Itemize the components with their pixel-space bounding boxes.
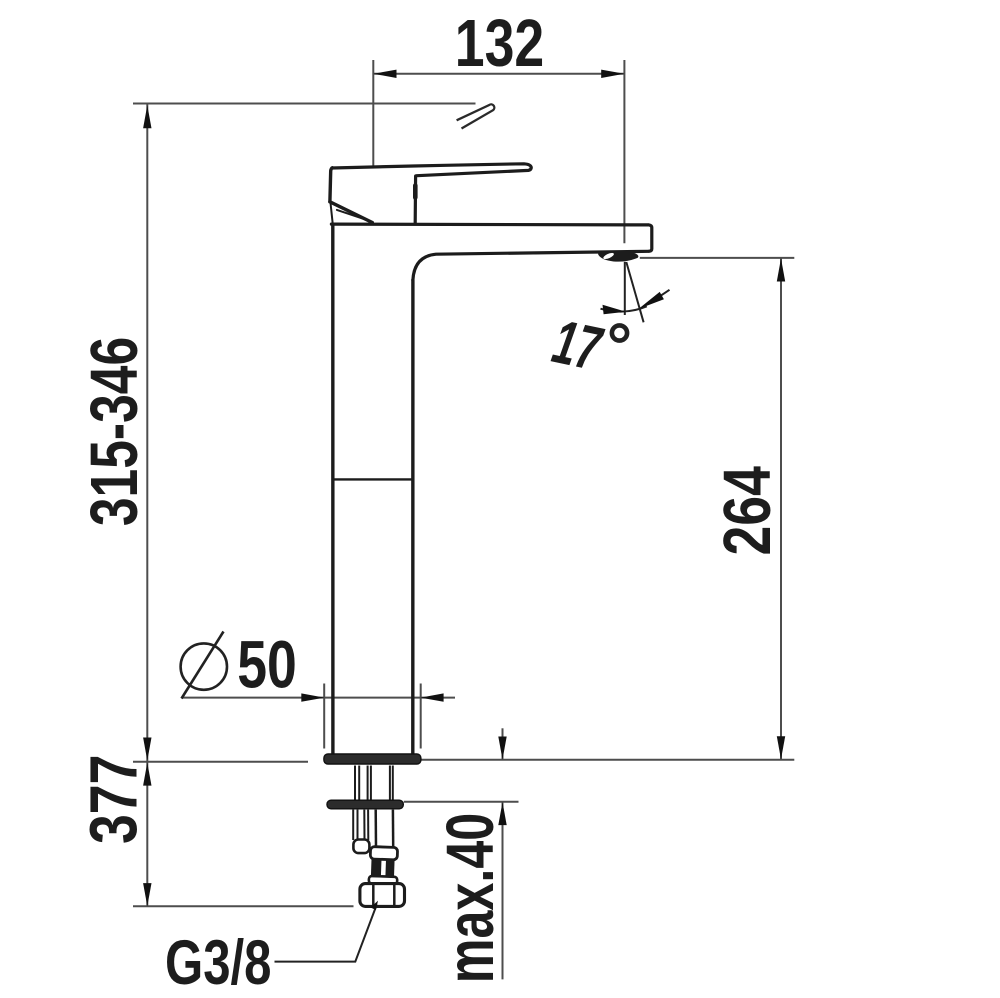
svg-text:264: 264 <box>709 466 784 556</box>
svg-text:max.40: max.40 <box>432 813 508 983</box>
svg-text:G3/8: G3/8 <box>165 927 272 997</box>
svg-text:315-346: 315-346 <box>76 337 151 526</box>
svg-text:50: 50 <box>237 627 297 702</box>
svg-text:132: 132 <box>455 5 544 80</box>
svg-text:377: 377 <box>76 755 151 844</box>
